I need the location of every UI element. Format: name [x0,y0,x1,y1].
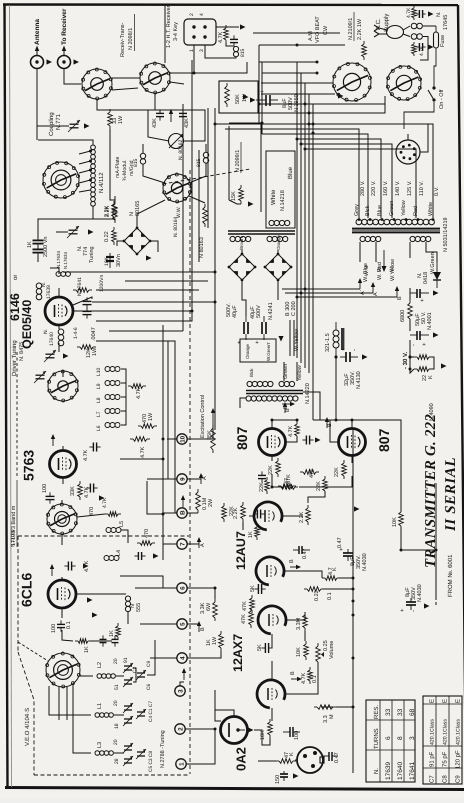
dot audio 3 [352,600,355,603]
label 2.2K 1W [357,18,363,40]
mod transformer primary b [279,381,295,386]
svg-text:40µF: 40µF [232,305,238,318]
wire 15K [229,200,241,204]
label A.C. [375,18,382,30]
svg-text:10K: 10K [296,647,302,657]
wire 5763 down [62,478,64,484]
wire vfo L2 [80,675,93,677]
svg-text:91 pF: 91 pF [429,751,436,767]
wire choke b2 [143,164,165,183]
label To Receiver [61,8,68,45]
rf choke 815 b [140,153,145,164]
svg-text:N.4090: N.4090 [429,403,435,421]
tap dot Green [393,218,396,221]
wire vfo sw 2 [58,687,60,720]
svg-text:22K: 22K [259,482,265,492]
terminal 10 [177,434,187,444]
svg-text:17639: 17639 [385,762,392,780]
svg-text:100: 100 [42,484,48,493]
svg-text:C7: C7 [429,775,436,783]
svg-text:Brown: Brown [239,237,244,250]
switch On-Off [404,56,436,129]
label 0.1 [66,621,72,629]
svg-text:1200Vn: 1200Vn [99,275,105,292]
wire term10 right [187,426,213,439]
svg-text:or: or [13,275,19,280]
pin label 1 [189,49,195,52]
svg-text:15K: 15K [231,191,237,201]
resistor 22K b [342,460,347,479]
svg-text:FROM №. 6001: FROM №. 6001 [447,554,454,597]
svg-text:VFO BEAT: VFO BEAT [315,16,321,43]
label 774 [83,247,89,256]
rotary switch S3 PA tank [42,161,79,198]
svg-text:2.2K: 2.2K [104,205,110,217]
arrow above 3 [182,668,186,680]
svg-text:4.7K: 4.7K [288,425,294,437]
tap dot 3 [89,169,92,172]
bus right 4 [308,94,310,373]
svg-text:L5: L5 [119,521,125,527]
svg-text:75 pF: 75 pF [442,751,449,767]
plug arrow [47,59,53,64]
label N.14218 [280,190,286,211]
meter M1 N.80162 [169,134,184,149]
wire term9 left [150,478,177,480]
label 17640 [49,332,55,346]
svg-text:N.4130: N.4130 [356,371,362,389]
wire bridge down a [242,281,246,316]
wire sec b left [409,242,411,258]
label L10 [96,367,102,376]
variable capacitor driver tuning [44,350,56,362]
label 807 left [234,426,250,450]
label 6CL6 [19,573,35,607]
dot 10K [400,549,403,552]
bus right 5 [312,104,314,420]
tap wire 5 [79,190,91,192]
electrolytic 32uF [340,347,358,362]
dot choke rail [335,419,338,422]
ground line a [428,11,434,16]
label 4.7K 807 [288,425,294,437]
svg-text:L6: L6 [96,425,102,431]
svg-text:22K: 22K [268,465,274,475]
tap wire 1 [79,151,91,154]
label N 555a [130,604,136,608]
tap label Blue [377,205,383,216]
svg-text:L4: L4 [116,550,122,556]
bridge rectifier N.80165 b [228,253,257,282]
label 0.47 au [302,548,308,559]
resistor WW N.80163 [203,204,208,227]
resistor 4.7K 807 [295,421,300,439]
svg-text:4.7K: 4.7K [136,387,142,399]
svg-text:5: 5 [180,622,187,626]
electrolytic 8uF N.3950 [256,89,278,106]
svg-text:B: B [290,671,296,675]
label A1 [201,474,208,480]
svg-text:N. 80164: N. 80164 [173,216,179,237]
svg-text:33K: 33K [70,486,76,496]
svg-text:807: 807 [376,428,392,452]
wire meter right [184,110,205,141]
tap voltage 110 V. [419,181,425,196]
svg-text:1: 1 [179,762,186,766]
label 500V 3950 [288,97,294,110]
svg-text:51: 51 [114,684,120,690]
rotary switch S2 meter select [163,173,192,203]
label L2 [97,662,103,668]
hbus 9 [225,129,359,218]
inner left scan line [10,5,12,787]
svg-text:II SERIAL: II SERIAL [443,457,459,532]
capacitor .0047 a [83,297,92,308]
label B+ [200,627,206,631]
svg-text:C 200: C 200 [291,301,297,316]
wire 6cl6 right [76,593,126,595]
resistor 2.2K au [241,502,246,522]
svg-text:On - Off: On - Off [439,89,445,109]
label 4.7K b [84,486,90,498]
wire stage 2b [340,577,353,579]
triode V5b 12AU7 [256,557,284,585]
svg-text:N.: N. [436,11,442,17]
label 0.1 b [312,675,318,683]
svg-text:K: K [428,375,434,379]
tap label Green [389,201,395,216]
svg-text:1K: 1K [109,630,115,637]
wire meter left [148,110,169,141]
label W.B top [364,265,370,276]
tube V2 5763 [50,451,77,478]
junction dot 13 [214,587,217,590]
svg-text:Orange: Orange [245,343,250,359]
ground 6CL6 c [92,612,98,617]
wire 807 2 [272,474,278,487]
svg-text:4: 4 [180,656,187,660]
svg-text:0.47: 0.47 [337,537,343,548]
label 47K a [286,474,292,484]
bus dot 6 [312,123,315,126]
resistor 3.3M b [314,705,336,710]
resistor 470 c [137,541,155,546]
capacitor vfo a [100,635,107,646]
svg-text:2500 Vn: 2500 Vn [43,237,49,258]
svg-text:43K: 43K [152,118,158,128]
resistor 22K WW [276,458,281,477]
svg-text:C8: C8 [442,775,449,783]
label N 5031/14219 [443,217,449,252]
svg-text:B: B [289,559,295,563]
label 4.7K [218,31,224,43]
label N.4030 a [362,553,368,571]
label 10K ww [104,256,110,266]
hbus 4 [261,82,333,84]
svg-text:N.14218: N.14218 [280,190,286,211]
svg-text:A´: A´ [359,289,366,295]
svg-text:500V.: 500V. [226,303,232,317]
bus dot 3 [296,44,299,47]
svg-text:3: 3 [199,49,205,52]
junction dot 8 [261,122,264,125]
dashed mechanical link [189,170,191,774]
wire choke c2 [189,163,206,183]
wire coupling [37,125,69,127]
label 321-1.5 [325,333,331,352]
label C4 C1 C7 [148,701,154,722]
bus vertical d [182,104,184,331]
svg-text:17639: 17639 [46,285,52,299]
label 500V a [256,305,262,318]
resistor 2.2K tank [113,201,118,223]
hbus 1 [259,44,345,46]
tap dot 1 [89,150,92,153]
wire vfo cath [61,609,63,619]
wire receiver jack to switch [64,69,81,85]
wire audio v1 [271,708,273,721]
wire right col2 [435,602,437,605]
wire wafer2 down [154,93,156,110]
resistor 50K [225,83,230,107]
label 22K 2Wb [428,375,434,379]
arrow above 5763 [51,434,55,446]
label 20 c [113,739,119,745]
wire pa top coil [50,268,59,274]
ground line b [428,44,434,49]
label 40uF a [250,306,256,319]
label N. 17645b [443,15,449,30]
label 43K left [152,118,158,128]
svg-text:B: B [285,408,291,412]
label N 2098/1 [128,14,135,51]
label N 80163 [199,237,205,258]
capacitor 100 b [283,727,300,737]
svg-text:321-1.5: 321-1.5 [325,333,331,352]
wire x147 seg [147,481,163,514]
label 12AU7 [234,531,248,570]
capacitor data table [423,696,462,784]
svg-text:18: 18 [114,723,120,729]
label 40uF b [232,305,238,318]
label 1K au [248,531,254,538]
wire stage 3 [286,612,305,620]
label N 80165 b [135,201,141,216]
capacitor line b [416,43,425,51]
pin label 2 [189,13,195,16]
svg-text:470: 470 [144,529,150,538]
svg-text:20: 20 [113,739,119,745]
svg-text:0.22: 0.22 [314,590,320,601]
ground 50uF b [433,332,439,337]
label Excitation Control [200,395,206,438]
label N.4/112 [98,172,105,193]
label 0.47 x [337,537,343,548]
svg-text:0.V.: 0.V. [434,186,440,196]
svg-text:6W: 6W [206,602,212,611]
junction dot 21 [351,419,354,422]
wire vfo out right [147,640,155,675]
label W.Green [430,252,436,274]
resistor 10K right [399,509,404,529]
coil N.17634 top [56,272,70,277]
tap dot Grey [358,218,361,221]
svg-text:Grey: Grey [354,204,360,216]
tap dot 2 [89,160,92,163]
label N.4090 [429,403,435,421]
wire ax out2 [336,706,353,708]
svg-text:L10: L10 [96,367,102,376]
svg-text:220 V.: 220 V. [371,180,377,196]
capacitor 5K b [261,643,272,653]
svg-text:17641: 17641 [409,762,416,780]
wire 807 plate r [313,420,352,429]
svg-text:Blck: Blck [249,368,254,377]
ladder wire 5 [96,311,192,321]
label L5 [119,521,125,527]
arrow A [197,537,201,548]
svg-text:Tuning: Tuning [89,246,95,263]
svg-text:17645: 17645 [443,15,449,30]
label 22K ww [268,465,274,475]
svg-text:1K: 1K [27,241,33,248]
resistor 22K bias [222,503,227,522]
ladder wire 6 [109,330,183,332]
resistor 2.2K meter [112,201,117,220]
hbus 7 [253,104,385,113]
variable capacitor N.774 tuning [67,226,79,238]
bus right 3 [304,83,306,368]
svg-text:20: 20 [113,700,119,706]
power transformer primary [356,219,434,225]
wire 10K col [352,420,401,512]
arrow B 807 [283,402,287,413]
junction dot 16 [162,513,165,516]
svg-text:C9: C9 [146,661,152,667]
resistor 4.7K ax [308,667,313,684]
resistor 47K a [278,485,298,490]
capacitor 807 cath [258,471,266,482]
svg-text:+: + [341,347,347,351]
label 20 a [113,658,119,664]
label 22K bias [229,506,235,516]
svg-text:W: W [389,267,395,272]
junction dot 15 [162,458,165,461]
hbus 11 [297,139,381,218]
hbus 10 [262,134,368,218]
label 91 [123,657,129,663]
svg-text:Green: Green [389,201,395,216]
label 22K 2W [422,375,428,381]
capacitor 43K right [179,109,187,120]
resistor 47K ww [250,595,255,613]
svg-text:CW: CW [323,25,329,35]
label 10K b [296,647,302,657]
svg-text:12AX7: 12AX7 [231,634,245,672]
capacitor au coupling [253,510,264,519]
plug arrow [74,59,80,64]
svg-text:0.1: 0.1 [66,621,72,629]
label 815 c [196,158,202,167]
junction dot 19 [352,706,355,709]
svg-text:47K: 47K [309,468,315,478]
wire key cluster 2 [226,43,234,46]
ladder wire 3 [96,289,199,291]
wire key cluster [226,26,239,28]
wire A line 2 [285,292,373,294]
label C5 C3 C8 [148,751,154,772]
svg-text:+: + [260,89,266,93]
junction dot 3 [296,296,299,299]
svg-text:N. 8475: N. 8475 [19,342,25,361]
svg-text:Red: Red [413,206,419,216]
bus dot 5 [308,112,311,115]
junction dot 2 [214,301,217,304]
wire 8uF right col [435,483,437,600]
wire socket right [420,124,428,152]
svg-text:1-4-6: 1-4-6 [73,327,79,339]
label N.4030 b [417,584,423,602]
label 1W [118,115,124,124]
electrolytic 50uF a [410,289,429,302]
variable capacitor 2 [34,371,46,383]
wire 2.2k up [114,196,116,201]
wire L5 out [121,530,128,543]
dashed VFO box top [18,535,189,537]
label B term [397,296,403,300]
svg-text:N.17104: N.17104 [10,529,15,547]
svg-text:50K: 50K [235,94,241,104]
label 807 right [376,428,392,452]
svg-text:20: 20 [113,658,119,664]
svg-text:3: 3 [178,689,185,693]
wire sec b right [426,242,437,262]
label N. 80164 [173,216,179,237]
svg-text:4.7K: 4.7K [102,497,108,508]
ground arrow key [240,24,246,29]
label 1K vfo [84,646,90,653]
svg-text:L3: L3 [97,742,103,748]
dashed VFO diag [18,642,48,661]
label 350V a2 [356,555,362,569]
label A.M [308,31,314,41]
svg-text:N 2099/1: N 2099/1 [235,150,241,172]
trimmer C1 [123,716,133,726]
label 0.1 a [327,592,333,600]
label A term [373,292,379,296]
svg-text:N.2788 -Tuning: N.2788 -Tuning [160,730,166,768]
dot 807 [296,419,299,422]
label N.4241 a [268,302,274,320]
svg-text:815: 815 [240,48,246,57]
ground arrow coupling [84,123,90,128]
wire term1 right [186,729,215,764]
svg-text:1K: 1K [84,646,90,653]
rotary switch S1 receive-transmit [82,68,113,100]
label 47K x [241,614,247,624]
label W.Yellow [294,329,300,351]
wire B line [297,296,397,298]
label 100 6cl6 [51,624,57,633]
electrolytic 40uF a [237,316,248,344]
core N.14218 [228,231,295,234]
wire vfo L1 out [114,714,122,716]
ground au [354,506,360,511]
wire tank to pa [93,219,115,222]
junction dot 12 [304,148,307,151]
resistor 47K mic [276,759,296,764]
winding sec Brown [230,236,251,241]
